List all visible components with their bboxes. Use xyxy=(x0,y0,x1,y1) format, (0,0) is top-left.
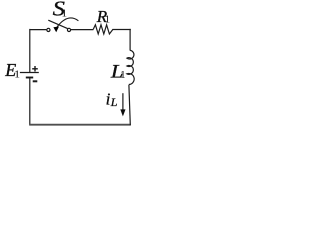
wire: left vertical wire from battery bottom plate to bottom-left corner xyxy=(29,78,31,125)
wire: left vertical wire from top corner down to battery top plate xyxy=(29,29,31,72)
wire: bottom horizontal wire xyxy=(29,124,131,126)
switch S1 right terminal circle xyxy=(67,28,70,31)
battery plus sign xyxy=(32,66,38,72)
svg-text:1: 1 xyxy=(62,9,67,20)
current arrow iL xyxy=(122,93,124,110)
switch S1 left terminal circle xyxy=(47,28,50,31)
inductor L1 coil (4 right-bulging humps with left cusps and bottom tail) xyxy=(127,50,134,84)
wire: top-left segment from corner to switch left terminal xyxy=(30,29,47,31)
wire: right vertical from bottom corner up to inductor bottom xyxy=(129,85,130,125)
battery E1 short (negative) plate xyxy=(26,77,33,79)
wire: top segment from switch right terminal to resistor xyxy=(71,29,93,31)
switch S1 closing arc arrow xyxy=(57,18,78,27)
svg-text:1: 1 xyxy=(120,70,125,81)
battery E1 long (positive) plate xyxy=(20,72,39,74)
wire: right vertical from inductor top up to top-right corner xyxy=(129,29,131,51)
switch S1 blade xyxy=(48,20,67,28)
svg-text:1: 1 xyxy=(105,15,110,26)
wire: top segment from resistor to top-right corner xyxy=(112,29,130,31)
svg-text:L: L xyxy=(110,95,118,109)
svg-text:1: 1 xyxy=(15,69,20,80)
resistor R1 zigzag xyxy=(93,25,113,34)
battery minus sign xyxy=(33,80,38,82)
